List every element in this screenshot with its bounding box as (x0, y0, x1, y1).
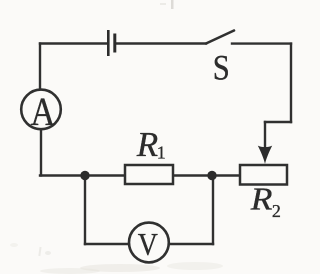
wire: battery to switch (116, 42, 206, 44)
wire: ammeter to main bottom wire (40, 129, 42, 176)
wire: voltmeter right vertical (212, 176, 214, 245)
svg-text:V: V (138, 227, 158, 262)
svg-text:R: R (250, 182, 273, 217)
voltmeter V1 label (138, 227, 158, 262)
svg-text:S: S (213, 48, 230, 88)
svg-text:2: 2 (272, 201, 281, 221)
svg-text:1: 1 (157, 143, 166, 163)
battery B1 long plate (107, 30, 110, 56)
wire: voltmeter left vertical (84, 176, 86, 245)
svg-text:A: A (31, 91, 56, 135)
node: junction dot left (R1 left) (80, 171, 89, 180)
wire: left vertical (corner to ammeter) (39, 44, 41, 91)
wire: step horizontal to wiper (265, 121, 291, 123)
rheostat R2 wiper arrowhead (258, 146, 272, 164)
wire: right vertical (290, 44, 292, 122)
wire: wiper stem (264, 122, 266, 150)
wire: top left horizontal (corner to battery) (40, 42, 107, 44)
wire: main horizontal (left end to R2) (40, 174, 240, 176)
wire: voltmeter bottom right (169, 243, 214, 245)
svg-text:R: R (136, 125, 158, 164)
ammeter A1 circle (21, 90, 61, 130)
resistor R1 box (125, 165, 173, 184)
switch S blade (206, 31, 234, 44)
ammeter A1 label (31, 91, 56, 135)
voltmeter V1 circle (129, 223, 169, 263)
rheostat R2 box (240, 165, 287, 185)
wire: voltmeter bottom left (85, 243, 130, 245)
battery B1 short plate (113, 34, 116, 53)
wire: switch right contact to right corner (232, 42, 291, 44)
switch S label (213, 48, 230, 88)
node: junction dot right (R1 right) (207, 171, 216, 180)
rheostat R2 label (250, 182, 273, 217)
